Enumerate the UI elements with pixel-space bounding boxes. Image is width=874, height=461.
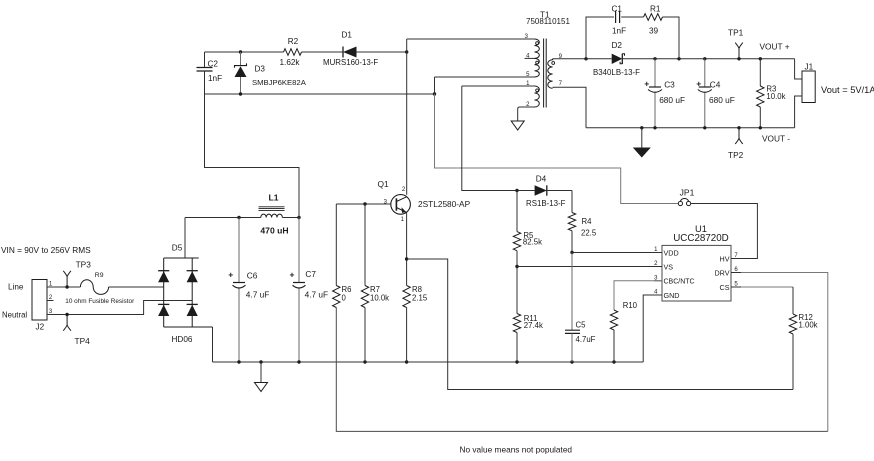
svg-text:680 uF: 680 uF [659, 95, 685, 105]
wire T1 pin 9 [555, 57, 612, 60]
test point TP2 [728, 128, 744, 160]
svg-text:U1: U1 [695, 223, 707, 234]
wire C1 R1 branch [586, 17, 679, 59]
svg-text:Q1: Q1 [378, 179, 390, 189]
svg-text:D2: D2 [612, 41, 623, 50]
svg-text:+: + [644, 79, 649, 89]
svg-text:TP4: TP4 [75, 336, 91, 346]
wire JP1 to HV pin [691, 204, 758, 259]
svg-text:J2: J2 [36, 323, 45, 332]
op-amp U1 (UCC28720D controller) [654, 223, 741, 301]
svg-text:1.00k: 1.00k [799, 321, 818, 330]
wire Q1 collector [406, 39, 408, 195]
resistor R2 [280, 37, 302, 67]
svg-text:1.62k: 1.62k [280, 58, 301, 67]
diode D3 [235, 52, 307, 94]
wire Q1 emitter [405, 212, 408, 285]
wire T1 pin 3 [407, 38, 535, 40]
svg-text:C2: C2 [208, 60, 219, 69]
test point TP4 [63, 313, 90, 346]
svg-text:L1: L1 [268, 193, 278, 203]
wire bridge to ground rail [212, 327, 214, 362]
resistor R10 [610, 301, 637, 362]
note [460, 445, 573, 455]
svg-text:B340LB-13-F: B340LB-13-F [593, 68, 640, 77]
connector J1 [795, 59, 816, 128]
diode D2 [593, 41, 640, 77]
svg-text:JP1: JP1 [680, 187, 695, 197]
svg-text:D4: D4 [536, 175, 547, 184]
transistor Q1 [378, 179, 471, 223]
svg-text:27.4k: 27.4k [524, 321, 543, 330]
svg-text:GND: GND [664, 291, 680, 300]
svg-text:VOUT -: VOUT - [762, 134, 790, 144]
diode D1 [323, 31, 378, 68]
svg-text:4.7 uF: 4.7 uF [305, 290, 329, 300]
bridge rectifier D5 [158, 244, 212, 345]
svg-text:39: 39 [649, 27, 659, 36]
svg-text:D1: D1 [342, 31, 353, 40]
ground secondary [633, 128, 651, 158]
jumper JP1 [678, 187, 694, 205]
node VOUT- [762, 134, 790, 144]
svg-text:HD06: HD06 [172, 335, 193, 344]
svg-text:C6: C6 [247, 271, 258, 281]
svg-text:R4: R4 [582, 217, 593, 226]
wire CS sense net [407, 259, 793, 390]
svg-text:D3: D3 [255, 65, 266, 74]
svg-text:C5: C5 [576, 321, 587, 330]
svg-text:10 ohm Fusible Resistor: 10 ohm Fusible Resistor [65, 298, 135, 305]
svg-text:R9: R9 [95, 272, 104, 279]
svg-text:TP3: TP3 [76, 260, 92, 270]
svg-text:R1: R1 [650, 5, 661, 14]
diode D4 [517, 175, 572, 209]
svg-text:C1: C1 [612, 5, 623, 14]
wire ground rail [213, 360, 644, 363]
wire DRV net [336, 273, 828, 432]
ground [255, 362, 268, 392]
node Neutral [2, 311, 27, 320]
svg-text:No value means not populated: No value means not populated [460, 445, 573, 455]
svg-text:22.5: 22.5 [581, 228, 597, 237]
resistor R6 [333, 204, 352, 308]
resistor R11 [513, 267, 543, 363]
wire T1 pin 5 / HV net [435, 77, 679, 204]
svg-text:TP2: TP2 [728, 150, 744, 160]
svg-text:+: + [228, 270, 233, 280]
wire GND pin to rail [643, 295, 662, 362]
svg-text:10.0k: 10.0k [766, 92, 785, 101]
wire R9 to bridge [109, 286, 164, 288]
svg-text:0: 0 [342, 294, 347, 303]
wire DC bus [185, 216, 301, 219]
test point TP3 [63, 260, 91, 289]
svg-text:D5: D5 [172, 244, 183, 253]
svg-text:R2: R2 [288, 37, 299, 46]
svg-text:C7: C7 [305, 269, 316, 279]
svg-text:VOUT +: VOUT + [760, 42, 790, 52]
svg-text:J1: J1 [805, 63, 814, 72]
capacitor C5 [565, 253, 596, 363]
svg-text:Vout = 5V/1A: Vout = 5V/1A [821, 85, 874, 95]
svg-text:4.7uF: 4.7uF [576, 335, 596, 344]
resistor R4 [568, 191, 597, 253]
capacitor C4 [696, 59, 735, 128]
svg-text:4.7 uF: 4.7 uF [246, 290, 270, 300]
resistor R5 [513, 191, 542, 267]
svg-text:10.0k: 10.0k [370, 294, 389, 303]
svg-text:+: + [696, 79, 701, 89]
wire CBC/NTC to R10 [614, 281, 662, 310]
label Vout [821, 85, 874, 95]
svg-text:VIN = 90V to 256V RMS: VIN = 90V to 256V RMS [1, 245, 91, 255]
svg-text:82.5k: 82.5k [523, 238, 542, 247]
svg-text:CBC/NTC: CBC/NTC [664, 279, 695, 286]
wire VS net [515, 265, 662, 268]
svg-text:7508110151: 7508110151 [526, 17, 570, 26]
wire T1 pin 1 to D4 [462, 86, 535, 192]
wire Q1 base [336, 202, 391, 205]
resistor R1 [644, 5, 663, 36]
svg-text:680 uF: 680 uF [709, 95, 735, 105]
resistor R7 [361, 204, 389, 362]
svg-text:R10: R10 [623, 301, 638, 310]
svg-text:RS1B-13-F: RS1B-13-F [526, 199, 566, 208]
resistor R3 [757, 59, 786, 128]
svg-text:C3: C3 [664, 80, 675, 90]
svg-text:C4: C4 [710, 80, 721, 90]
svg-text:MURS160-13-F: MURS160-13-F [323, 58, 378, 67]
wire Line to R9 [54, 286, 81, 288]
wire snubber to DC bus [205, 94, 300, 218]
capacitor C3 [644, 59, 685, 128]
svg-text:2STL2580-AP: 2STL2580-AP [418, 199, 471, 209]
capacitor C6 [228, 218, 269, 363]
capacitor C7 [290, 218, 329, 363]
svg-text:VS: VS [664, 262, 674, 271]
wire Neutral net [54, 301, 193, 315]
node Line [8, 283, 24, 292]
wire snubber top rail [205, 50, 409, 53]
svg-text:2.15: 2.15 [412, 294, 428, 303]
svg-text:Neutral: Neutral [2, 311, 27, 320]
svg-text:Line: Line [8, 283, 24, 292]
label VIN [1, 245, 91, 255]
node VOUT+ [760, 42, 790, 52]
svg-text:UCC28720D: UCC28720D [673, 233, 729, 244]
svg-text:HV: HV [720, 254, 730, 263]
test point TP1 [728, 28, 744, 59]
svg-text:VDD: VDD [664, 248, 679, 257]
svg-text:SMBJP6KE82A: SMBJP6KE82A [252, 78, 307, 87]
svg-text:CS: CS [720, 283, 730, 292]
ground at T1 pin 2 [511, 121, 524, 130]
svg-text:1nF: 1nF [612, 27, 626, 36]
svg-text:DRV: DRV [714, 268, 729, 277]
resistor R9 [65, 272, 135, 305]
svg-text:1nF: 1nF [208, 74, 222, 83]
svg-text:+: + [290, 270, 295, 280]
resistor R8 [403, 285, 428, 362]
inductor L1 [259, 193, 289, 236]
transformer T1 [518, 11, 571, 122]
wire VOUT- rail [555, 87, 795, 129]
wire VDD net [570, 251, 662, 254]
svg-text:TP1: TP1 [728, 28, 744, 38]
wire bridge to L1 bus [184, 218, 186, 259]
svg-text:470 uH: 470 uH [260, 226, 288, 236]
wire VOUT+ rail [622, 57, 794, 60]
connector J2 [32, 280, 54, 332]
capacitor C2 [197, 52, 223, 94]
capacitor C1 [612, 5, 627, 36]
resistor R12 [741, 287, 818, 390]
wire snubber bottom rail [205, 92, 437, 95]
